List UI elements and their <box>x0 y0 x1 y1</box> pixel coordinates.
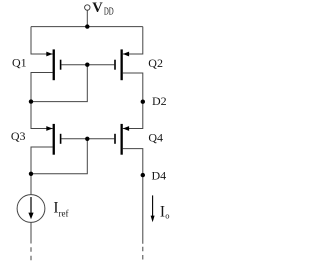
svg-text:DD: DD <box>104 5 114 17</box>
svg-text:o: o <box>165 211 169 221</box>
svg-text:D2: D2 <box>152 94 167 108</box>
svg-text:V: V <box>92 0 103 16</box>
svg-text:Q2: Q2 <box>148 56 163 70</box>
svg-text:ref: ref <box>59 208 69 218</box>
svg-text:Q4: Q4 <box>148 131 163 145</box>
svg-text:Q1: Q1 <box>12 56 27 70</box>
svg-text:Q3: Q3 <box>11 129 26 143</box>
svg-text:I: I <box>160 204 165 221</box>
svg-text:D4: D4 <box>152 168 167 182</box>
